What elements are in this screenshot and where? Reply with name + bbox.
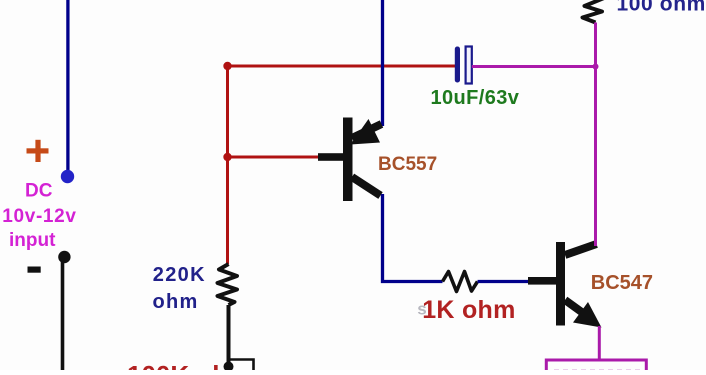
- potentiometer 100K (partial box): [230, 360, 254, 373]
- wire: purple from capacitor: [472, 65, 596, 68]
- svg-text:ohm: ohm: [153, 291, 199, 313]
- resistor R3 100 ohm (partial): [583, 0, 605, 23]
- svg-text:10uF/63v: 10uF/63v: [431, 87, 520, 109]
- label: 220K ohm: [153, 264, 206, 313]
- svg-text:BC557: BC557: [378, 154, 437, 175]
- wire: positive supply vertical (navy): [66, 0, 69, 173]
- capacitor C1 plate left: [455, 47, 460, 83]
- wire: purple collector rail: [594, 23, 597, 247]
- svg-text:input: input: [9, 230, 56, 251]
- wire: red to BC557 base: [228, 156, 322, 159]
- wire: red rail to capacitor: [228, 65, 457, 68]
- resistor R1 220K: [218, 264, 238, 305]
- resistor R2 1K: [443, 272, 478, 292]
- svg-text:220K: 220K: [153, 264, 206, 286]
- label: DC 10v-12v input: [2, 181, 76, 252]
- wire: navy from top to BC557 emitter: [381, 0, 384, 126]
- transistor Q2 BC547 (NPN): [528, 242, 602, 328]
- node: - terminal dot: [58, 251, 70, 263]
- svg-text:10v-12v: 10v-12v: [2, 206, 76, 227]
- + polarity symbol: [27, 140, 49, 162]
- capacitor C1 plate right: [466, 47, 472, 84]
- node: junction at 100K pot wiper: [224, 362, 234, 372]
- wire: 220K to 100K pot (black): [227, 305, 231, 366]
- svg-text:BC547: BC547: [591, 272, 653, 294]
- transistor Q1 BC557 (PNP): [318, 118, 382, 202]
- wire: - terminal down (black): [61, 258, 65, 372]
- svg-text:s: s: [417, 300, 426, 319]
- wire: red rail vertical: [226, 66, 229, 264]
- svg-text:1K ohm: 1K ohm: [422, 296, 515, 324]
- - polarity symbol: [28, 267, 41, 273]
- wire: 1K to BC547 base (navy): [478, 280, 532, 283]
- svg-text:100K ohm: 100K ohm: [127, 360, 251, 370]
- node: + terminal dot: [61, 170, 74, 183]
- wire: BC557 collector down and to 1K (navy): [383, 194, 443, 282]
- wire: BC547 emitter down (purple): [598, 326, 601, 360]
- speaker text tops (clipped): [554, 370, 640, 372]
- node: red junction top: [223, 62, 231, 70]
- svg-text:100 ohm: 100 ohm: [617, 0, 706, 16]
- node: red junction base: [223, 153, 231, 161]
- svg-text:DC: DC: [25, 181, 53, 202]
- speaker box (partial): [546, 360, 646, 372]
- node: purple tee at rail: [593, 64, 599, 70]
